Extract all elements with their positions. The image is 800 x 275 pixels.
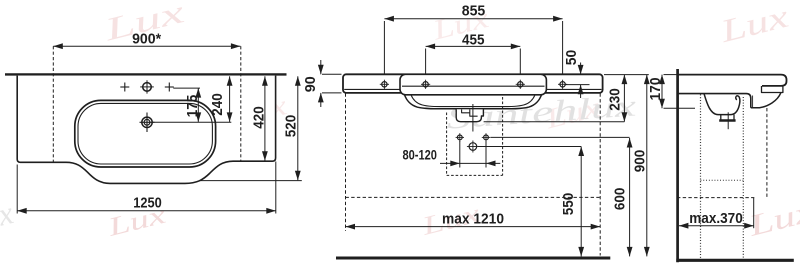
svg-text:170: 170 — [647, 78, 664, 101]
svg-text:240: 240 — [209, 93, 226, 116]
svg-text:230: 230 — [606, 88, 623, 111]
svg-text:80-120: 80-120 — [402, 147, 437, 163]
svg-text:max.370: max.370 — [689, 210, 743, 227]
svg-text:900*: 900* — [132, 30, 161, 47]
svg-text:600: 600 — [612, 188, 629, 211]
svg-text:175: 175 — [184, 95, 201, 118]
svg-text:50: 50 — [563, 50, 580, 66]
svg-text:420: 420 — [250, 106, 267, 129]
svg-text:90: 90 — [302, 76, 319, 92]
svg-text:855: 855 — [462, 2, 486, 19]
svg-text:550: 550 — [560, 193, 577, 216]
svg-text:max 1210: max 1210 — [442, 211, 504, 228]
svg-text:900: 900 — [631, 150, 648, 173]
svg-text:1250: 1250 — [133, 194, 162, 211]
svg-text:520: 520 — [283, 115, 300, 138]
svg-text:455: 455 — [462, 31, 485, 48]
